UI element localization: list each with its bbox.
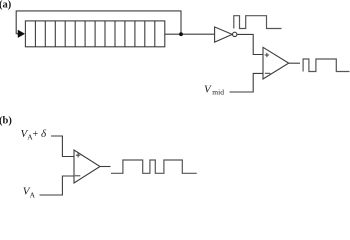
comparator U3 output wire: [100, 166, 111, 168]
plus sign U2: [265, 53, 269, 57]
svg-text:A: A: [30, 191, 36, 199]
wire VA to comparator - input: [40, 176, 75, 195]
wire feedback loop: [16, 11, 181, 34]
minus sign U3: [75, 175, 81, 177]
wire VA+delta to comparator + input: [51, 136, 74, 157]
output waveform (a): [303, 59, 349, 72]
svg-text:mid: mid: [212, 88, 224, 97]
svg-text:(a): (a): [0, 0, 12, 11]
comparator U2: [263, 47, 289, 79]
svg-text:+: +: [33, 129, 39, 140]
output waveform (b): [111, 160, 197, 173]
wire register to inverter: [165, 33, 215, 35]
comparator output wire: [289, 62, 300, 64]
wire V_mid to comparator - input: [230, 73, 264, 92]
svg-text:δ: δ: [41, 128, 47, 140]
svg-text:(b): (b): [0, 116, 12, 127]
input arrow: [18, 30, 25, 37]
minus sign U2: [265, 72, 271, 74]
plus sign U3: [76, 153, 80, 157]
comparator U3: [74, 150, 100, 183]
waveform at inverter output: [234, 16, 282, 29]
shift register box: [25, 21, 164, 47]
wire inverter to comparator + input: [237, 34, 263, 54]
junction dot: [179, 32, 183, 36]
inverter U1: [215, 27, 233, 42]
